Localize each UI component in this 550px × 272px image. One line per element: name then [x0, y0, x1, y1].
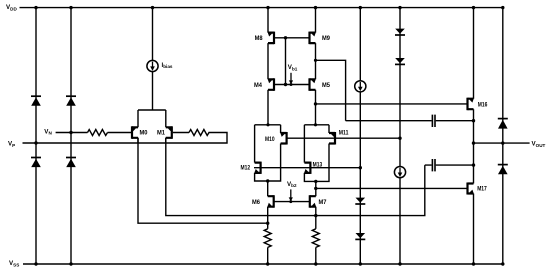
- junction dots output column: [472, 6, 505, 266]
- transistor M5: [310, 78, 331, 125]
- wire M6 source to R3: [267, 207, 269, 229]
- svg-text:M6: M6: [252, 199, 260, 206]
- wire M10 source bar from M4: [255, 124, 281, 126]
- wire M10-M11 gate line to bias chain: [287, 137, 400, 139]
- wire M5 drain to M16 gate: [316, 103, 468, 105]
- diode D1 (VP to VDD): [31, 96, 41, 106]
- capacitor C2: [425, 159, 474, 171]
- svg-text:M12: M12: [241, 165, 251, 172]
- wire Vb1 tie: [285, 38, 287, 85]
- node Vb1: [288, 64, 298, 86]
- resistor R1 (VN series): [88, 130, 108, 136]
- wire output branch vertical: [473, 8, 475, 264]
- svg-text:M17: M17: [477, 185, 487, 192]
- svg-text:M8: M8: [255, 35, 263, 42]
- current source I3: [394, 167, 405, 178]
- svg-text:M11: M11: [339, 130, 349, 137]
- wire R2 to M1 gate: [173, 132, 189, 134]
- current source Ibias: [147, 60, 173, 71]
- transistor M13: [304, 161, 322, 174]
- transistor M0: [132, 110, 148, 143]
- transistor M12: [241, 162, 261, 174]
- diode D10 (VSS to VOUT): [498, 165, 508, 175]
- transistor M8: [255, 8, 274, 80]
- wire VN net: [56, 132, 88, 134]
- transistor M4: [254, 78, 274, 125]
- wire M13 drain from M11 bar: [303, 125, 305, 163]
- junction dots bias lines: [266, 36, 401, 169]
- resistor R2 (VP series): [189, 130, 209, 136]
- transistor M10: [265, 125, 287, 145]
- svg-text:M7: M7: [319, 199, 327, 206]
- wire M4-M5 gate line: [274, 84, 310, 86]
- diode D6: [355, 233, 365, 239]
- junction dots input nets: [34, 131, 72, 145]
- junction dots VSS rail: [34, 262, 475, 265]
- diode D9 (VOUT to VDD): [498, 119, 508, 129]
- diode D7: [395, 29, 405, 35]
- wire M11 source bar from M5: [304, 124, 329, 126]
- diode D5: [355, 198, 365, 204]
- wire ESD column 2 (VN protection): [70, 8, 72, 264]
- wire VP net: [23, 133, 228, 144]
- wire R3 to VSS: [267, 247, 269, 264]
- wire M8-M9 gate line: [274, 37, 310, 39]
- diode D8: [395, 58, 405, 64]
- wire Ibias to M0/M1 common source: [152, 72, 154, 110]
- wire M0/M1 source bar: [138, 109, 166, 111]
- diode D2 (VSS to VP): [31, 158, 41, 168]
- node Vb2: [287, 181, 297, 203]
- junction dots second stage nodes: [266, 179, 317, 225]
- svg-text:M9: M9: [322, 35, 330, 42]
- wire bias chain A (current source over diodes): [359, 8, 361, 264]
- svg-text:M4: M4: [254, 82, 262, 89]
- wire M1 drain to M7 source node and cap C2: [166, 138, 425, 216]
- wire M11 drain / M13 source node: [304, 144, 329, 182]
- wire VSS rail: [23, 263, 503, 265]
- wire M7 drain: [315, 181, 317, 196]
- svg-text:M5: M5: [322, 82, 330, 89]
- junction dots VDD rail: [34, 6, 475, 9]
- resistor R3: [264, 229, 271, 248]
- capacitor C1: [346, 115, 474, 127]
- transistor M17: [468, 183, 487, 195]
- transistor M7: [310, 195, 327, 208]
- wire M6-M7 gate line: [274, 201, 310, 203]
- wire M7 drain tap to M17 gate: [316, 187, 467, 189]
- diode D3 (VN to VDD): [66, 96, 76, 106]
- wire bias chain B (diodes over current source): [399, 8, 401, 264]
- transistor M11: [329, 125, 349, 145]
- svg-text:M10: M10: [265, 136, 275, 143]
- resistor R4: [312, 229, 319, 248]
- diode D4 (VSS to VN): [66, 158, 76, 168]
- transistor M1: [157, 110, 172, 143]
- wire VDD rail: [20, 7, 503, 9]
- current source I2: [355, 81, 366, 92]
- svg-text:M0: M0: [140, 129, 148, 136]
- wire M12-M13 gate line to bias chain: [254, 167, 360, 169]
- wire M0 drain to M6 source node: [138, 138, 268, 223]
- transistor M16: [468, 98, 488, 111]
- svg-text:M16: M16: [478, 102, 488, 109]
- wire R4 to VSS: [315, 247, 317, 264]
- wire M12 drain from M10 bar: [254, 125, 256, 163]
- wire ESD column 1 (VP protection): [35, 8, 37, 264]
- wire VDD to Ibias: [152, 8, 154, 61]
- wire M7 source to R4: [315, 207, 317, 229]
- wire M6 drain: [267, 181, 269, 196]
- wire M10 drain / M12 source node: [255, 144, 281, 182]
- svg-text:M1: M1: [157, 129, 165, 136]
- wire M9 drain tap to cap C1: [316, 60, 346, 120]
- wire ESD column 3 (VOUT protection): [502, 8, 504, 264]
- wire VOUT net: [474, 142, 530, 144]
- wire R1 to M0 gate: [108, 132, 132, 134]
- transistor M9: [310, 8, 331, 80]
- transistor M6: [252, 195, 274, 208]
